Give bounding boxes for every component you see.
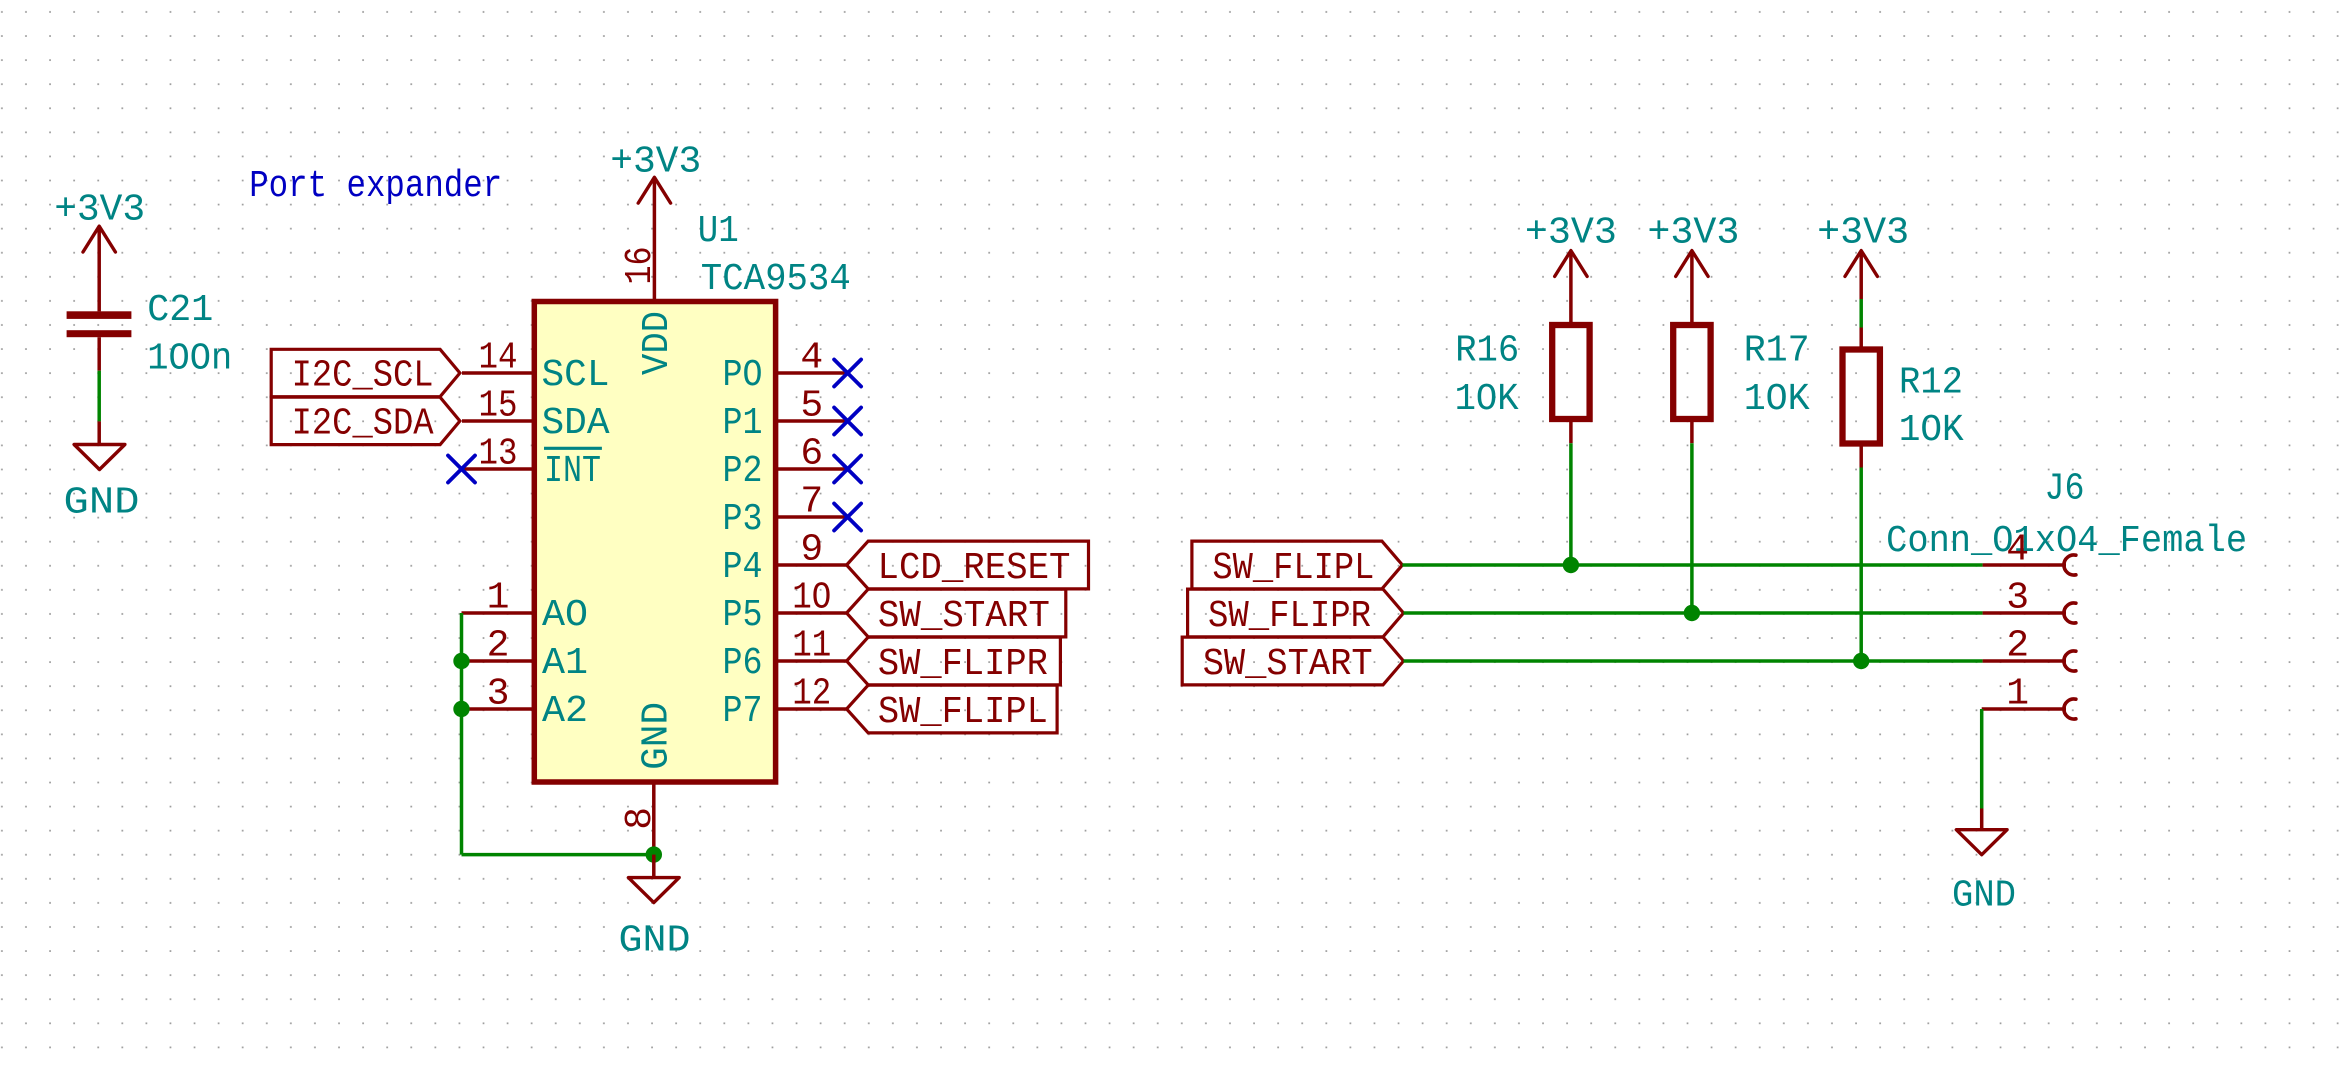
junction (A1 wire) [453,653,469,669]
svg-text:A1: A1 [542,642,588,685]
ground (left) [64,445,140,525]
svg-text:1OK: 1OK [1455,378,1519,421]
pin 13 INT [462,433,602,494]
wire junction to GND symbol [652,855,656,878]
svg-text:16: 16 [619,247,662,285]
svg-text:R17: R17 [1744,330,1810,373]
wire SW_FLIPR [1404,611,1983,615]
global label I2C_SDA [271,397,460,445]
power symbol +3V3 (pull-up) [1525,211,1617,276]
svg-text:TCA9534: TCA9534 [701,258,851,301]
svg-text:4: 4 [2006,529,2029,572]
svg-text:J6: J6 [2045,468,2085,511]
svg-text:12: 12 [792,673,831,716]
svg-text:SW_FLIPR: SW_FLIPR [1208,595,1371,638]
connector J6 pin 3 [1983,577,2076,624]
svg-text:3: 3 [2006,577,2029,620]
pin 3 A2 [462,673,589,734]
wire [1690,443,1694,613]
svg-text:R12: R12 [1899,362,1963,405]
svg-text:R16: R16 [1455,330,1519,373]
svg-text:6: 6 [800,433,823,476]
svg-text:AO: AO [542,594,588,637]
ground (under U1) [619,878,691,963]
wire SW_START [1404,659,1983,663]
svg-text:2: 2 [487,625,510,668]
svg-text:P6: P6 [723,642,763,685]
resistor R16 [1552,251,1589,444]
junction (R16 / SW_FLIPL) [1563,557,1579,573]
svg-text:I2C_SDA: I2C_SDA [292,403,434,446]
svg-text:P3: P3 [723,498,763,541]
connector J6 pin 1 [1982,673,2076,720]
pin 15 SDA [462,385,610,446]
junction (R12 / SW_START) [1853,653,1869,669]
global label SW_FLIPR [847,637,1061,686]
global label SW_FLIPL [847,685,1058,734]
svg-text:INT: INT [544,450,601,493]
svg-text:11: 11 [792,625,831,668]
no-connect X on pin 4 [834,360,861,387]
svg-text:C21: C21 [147,289,213,332]
svg-text:SW_START: SW_START [1203,643,1373,686]
svg-text:PO: PO [723,354,763,397]
pin 9 P4 [723,529,848,590]
capacitor C21 [67,311,132,370]
svg-text:+3V3: +3V3 [1817,211,1909,254]
connector J6 pin 4 [1983,529,2076,576]
svg-text:SW_FLIPL: SW_FLIPL [878,691,1048,734]
svg-text:2: 2 [2006,625,2029,668]
pin 8 GND [619,782,662,855]
pin 5 P1 [723,385,848,446]
pin 1O P5 [723,577,848,638]
op-amp U1 body (TCA9534) [534,302,775,783]
svg-text:5: 5 [800,385,823,428]
wire SW_FLIPL [1402,563,1982,567]
wire [1859,468,1863,662]
svg-text:VDD: VDD [636,311,679,375]
resistor R17 [1673,251,1710,444]
svg-text:SW_START: SW_START [878,595,1050,638]
junction (A2 wire) [453,701,469,717]
pin 7 P3 [723,481,848,542]
svg-text:P4: P4 [723,546,763,589]
svg-text:Port expander: Port expander [249,165,502,208]
svg-text:P7: P7 [723,690,763,733]
svg-text:13: 13 [479,433,518,476]
power symbol +3V3 (pull-up) [1817,211,1909,276]
wire to GND junction [462,853,654,857]
resistor R12 [1843,251,1880,468]
global label I2C_SCL [271,349,460,397]
svg-text:+3V3: +3V3 [1647,211,1739,254]
junction (R17 / SW_FLIPR) [1684,605,1700,621]
svg-text:U1: U1 [698,210,739,253]
wire [97,421,101,444]
svg-text:P1: P1 [723,402,763,445]
svg-text:SW_FLIPL: SW_FLIPL [1212,547,1374,590]
svg-text:3: 3 [487,673,510,716]
svg-text:GND: GND [636,702,679,770]
global label LCD_RESET [847,541,1089,590]
svg-text:1OK: 1OK [1899,409,1964,452]
svg-text:P2: P2 [723,450,763,493]
svg-text:A2: A2 [542,690,588,733]
wire A0-A2 chain [460,613,464,855]
wire J6 pin1 to GND [1980,709,1984,809]
no-connect X on pin 6 [834,456,861,483]
pin 1 AO [462,577,589,638]
pin 2 A1 [462,625,589,686]
pin 14 SCL [462,337,610,398]
svg-text:1: 1 [2006,673,2029,716]
svg-text:GND: GND [64,482,140,525]
junction (GND under U1) [646,846,662,862]
power symbol +3V3 (U1 VDD) [610,140,701,301]
pin 12 P7 [723,673,848,734]
no-connect X on pin 13 [448,456,475,483]
svg-text:9: 9 [800,529,823,572]
no-connect X on pin 7 [834,504,861,531]
svg-text:SCL: SCL [542,354,610,397]
svg-text:8: 8 [619,807,662,830]
svg-text:SDA: SDA [542,402,610,445]
wire [97,371,101,422]
svg-text:GND: GND [1952,875,2016,918]
svg-text:P5: P5 [723,594,763,637]
wire [1569,443,1573,565]
svg-text:15: 15 [479,385,518,428]
svg-text:1OK: 1OK [1744,378,1810,421]
pin 11 P6 [723,625,848,686]
svg-text:+3V3: +3V3 [1525,211,1617,254]
power symbol +3V3 (left) [54,188,145,311]
connector J6 pin 2 [1983,625,2076,672]
no-connect X on pin 5 [834,408,861,435]
svg-text:GND: GND [619,919,691,962]
power symbol +3V3 (pull-up) [1647,211,1739,276]
global label SW_FLIPR (net to J6 pin3) [1188,589,1404,638]
svg-text:7: 7 [800,481,823,524]
wire [1980,809,1984,830]
global label SW_START [847,589,1066,638]
svg-text:1O: 1O [792,577,831,620]
pin 4 P0 [723,337,848,398]
svg-text:SW_FLIPR: SW_FLIPR [878,643,1048,686]
svg-text:I2C_SCL: I2C_SCL [292,355,434,398]
ground (J6) [1952,830,2016,918]
global label SW_START (net to J6 pin2) [1182,637,1403,686]
svg-text:1OOn: 1OOn [147,338,232,381]
svg-text:LCD_RESET: LCD_RESET [878,547,1071,590]
pin 6 P2 [723,433,848,494]
svg-text:1: 1 [487,577,510,620]
svg-text:14: 14 [479,337,518,380]
svg-text:4: 4 [800,337,823,380]
global label SW_FLIPL (net to J6 pin4) [1192,541,1403,590]
